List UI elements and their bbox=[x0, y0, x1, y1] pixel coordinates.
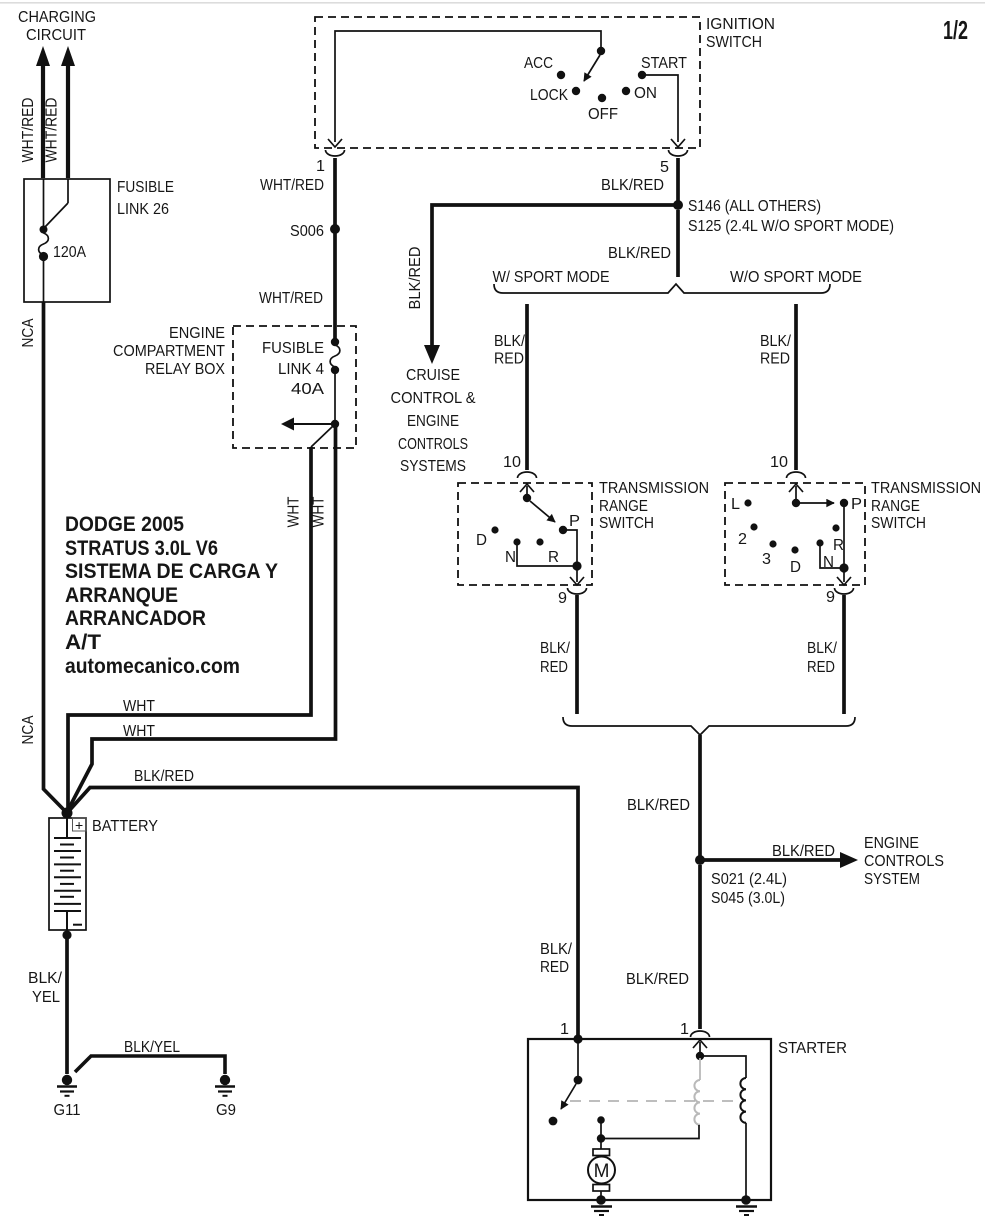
svg-text:CONTROLS: CONTROLS bbox=[864, 853, 944, 870]
pin 1 arrow (starter) bbox=[693, 1040, 707, 1048]
svg-text:DODGE 2005: DODGE 2005 bbox=[65, 513, 184, 536]
label ENGINE CONTROLS SYSTEM bbox=[864, 835, 944, 888]
wire WHT/RED to charging circuit (left arrow) bbox=[36, 46, 50, 178]
wire P to pin 9 (left TRS) bbox=[565, 530, 577, 564]
svg-text:BLK/RED: BLK/RED bbox=[627, 797, 690, 814]
wire BLK/RED to engine controls system bbox=[700, 858, 841, 862]
wire BLK/RED left branch bbox=[525, 304, 529, 470]
svg-text:ENGINE: ENGINE bbox=[407, 413, 459, 430]
contact ON bbox=[622, 87, 630, 95]
svg-text:1/2: 1/2 bbox=[943, 15, 968, 45]
svg-text:START: START bbox=[641, 55, 687, 72]
option brace W/ vs W/O sport mode bbox=[494, 284, 830, 293]
svg-text:SYSTEMS: SYSTEMS bbox=[400, 458, 466, 475]
splice S006 bbox=[330, 224, 340, 234]
ground G9 bbox=[215, 1075, 236, 1119]
ignition switch internal wiring pin5 side bbox=[645, 75, 678, 142]
svg-text:W/O SPORT MODE: W/O SPORT MODE bbox=[730, 269, 862, 286]
wire WHT/RED to charging circuit (right arrow) bbox=[61, 46, 75, 178]
solenoid pull-in winding (gray) bbox=[699, 1058, 701, 1080]
pin 1 arrow bbox=[328, 139, 342, 147]
starter box bbox=[528, 1039, 771, 1200]
svg-text:SISTEMA DE CARGA Y: SISTEMA DE CARGA Y bbox=[65, 560, 278, 583]
contact P (left TRS) bbox=[559, 526, 567, 534]
label TRANSMISSION RANGE SWITCH (right) bbox=[871, 480, 981, 532]
wire BLK/RED S146 down to option brace bbox=[676, 210, 680, 277]
contact 2 (right TRS) bbox=[750, 523, 757, 530]
wire BLK/RED right branch bbox=[794, 304, 798, 470]
wire P to pin 9 (right TRS) bbox=[843, 507, 845, 566]
svg-text:TRANSMISSION: TRANSMISSION bbox=[871, 480, 981, 497]
svg-text:CONTROL &: CONTROL & bbox=[391, 390, 476, 407]
svg-text:RED: RED bbox=[807, 659, 835, 676]
node CHARGING CIRCUIT label bbox=[18, 9, 96, 44]
svg-text:2: 2 bbox=[738, 531, 747, 548]
svg-text:LOCK: LOCK bbox=[530, 87, 569, 104]
fuse element FUSIBLE LINK 26 120A bbox=[39, 179, 68, 302]
svg-text:P: P bbox=[851, 496, 862, 513]
svg-text:LINK 26: LINK 26 bbox=[117, 201, 169, 218]
svg-text:BLK/: BLK/ bbox=[494, 333, 526, 350]
svg-text:RANGE: RANGE bbox=[599, 498, 648, 515]
node solenoid feed bbox=[696, 1052, 704, 1060]
junction pin 9 (right TRS) bbox=[839, 563, 848, 572]
svg-text:RED: RED bbox=[540, 659, 568, 676]
wire N to pin 9 (right TRS) bbox=[820, 546, 842, 568]
wire pull-in winding return bbox=[603, 1125, 699, 1139]
label IGNITION SWITCH bbox=[706, 16, 775, 51]
svg-text:9: 9 bbox=[558, 590, 567, 607]
pin 10 connector (left) bbox=[518, 472, 537, 478]
arrow to other circuits in relay box bbox=[290, 423, 331, 425]
svg-text:COMPARTMENT: COMPARTMENT bbox=[113, 343, 225, 360]
contact OFF bbox=[598, 94, 606, 102]
svg-text:S021 (2.4L): S021 (2.4L) bbox=[711, 871, 787, 888]
wire BLK/YEL battery to G11 bbox=[65, 937, 69, 1074]
ground (solenoid winding) bbox=[736, 1195, 757, 1215]
svg-text:R: R bbox=[833, 537, 844, 554]
svg-text:ENGINE: ENGINE bbox=[864, 835, 919, 852]
wire BLK/YEL to G9 bbox=[75, 1056, 225, 1074]
svg-text:S006: S006 bbox=[290, 223, 324, 240]
svg-text:BLK/YEL: BLK/YEL bbox=[124, 1039, 180, 1056]
switch wiper left TRS bbox=[523, 494, 531, 502]
svg-text:BLK/: BLK/ bbox=[540, 640, 571, 657]
svg-text:BLK/RED: BLK/RED bbox=[626, 971, 689, 988]
svg-text:G11: G11 bbox=[54, 1102, 81, 1119]
svg-text:BLK/: BLK/ bbox=[28, 970, 63, 987]
svg-text:R: R bbox=[548, 549, 559, 566]
wire hold-in winding to ground bbox=[745, 1123, 747, 1197]
ignition switch box bbox=[315, 17, 700, 148]
wire WHT branch diagonal bbox=[311, 426, 333, 447]
node starter battery terminal bbox=[573, 1034, 582, 1043]
svg-text:ENGINE: ENGINE bbox=[169, 325, 225, 342]
svg-text:P: P bbox=[569, 513, 580, 530]
wire WHT/RED pin1 to S006 bbox=[333, 158, 337, 225]
pin 1 connector bbox=[326, 150, 345, 156]
svg-text:WHT/RED: WHT/RED bbox=[44, 98, 61, 163]
contact P (right TRS) bbox=[840, 499, 848, 507]
wire BLK/RED pin5 to S146 bbox=[676, 158, 680, 202]
transmission range switch box (right) bbox=[725, 483, 865, 585]
pin 1 connector (starter) bbox=[691, 1031, 710, 1037]
motor M bbox=[600, 1142, 602, 1149]
svg-text:5: 5 bbox=[660, 159, 669, 176]
svg-text:FUSIBLE: FUSIBLE bbox=[262, 340, 324, 357]
svg-text:BLK/RED: BLK/RED bbox=[134, 768, 194, 785]
pin 9 connector (left) bbox=[568, 588, 587, 594]
wire WHT (left) relay box to battery bbox=[68, 447, 311, 810]
ground G11 bbox=[54, 1075, 81, 1119]
ignition switch internal wiring pin1 side bbox=[335, 31, 601, 142]
svg-text:RED: RED bbox=[760, 351, 790, 368]
contact L (right TRS) bbox=[744, 499, 751, 506]
svg-text:WHT/RED: WHT/RED bbox=[260, 177, 324, 194]
svg-text:40A: 40A bbox=[291, 381, 325, 398]
svg-text:CIRCUIT: CIRCUIT bbox=[26, 27, 86, 44]
contact R (right TRS) bbox=[832, 524, 839, 531]
contact N (left TRS) bbox=[513, 538, 520, 545]
svg-text:RELAY BOX: RELAY BOX bbox=[145, 361, 225, 378]
svg-text:BLK/: BLK/ bbox=[760, 333, 792, 350]
svg-text:WHT: WHT bbox=[123, 698, 155, 715]
wire WHT/RED S006 to fusible link 4 bbox=[333, 233, 337, 341]
node battery negative bbox=[62, 930, 71, 939]
svg-text:BLK/RED: BLK/RED bbox=[407, 247, 424, 310]
svg-text:9: 9 bbox=[826, 589, 835, 606]
wire NCA battery feed bbox=[44, 302, 67, 812]
svg-text:WHT: WHT bbox=[311, 497, 328, 528]
svg-text:ARRANCADOR: ARRANCADOR bbox=[65, 607, 206, 630]
pin 9 connector (right) bbox=[835, 588, 854, 594]
svg-text:D: D bbox=[790, 559, 801, 576]
svg-text:SWITCH: SWITCH bbox=[706, 34, 762, 51]
merge brace bbox=[563, 717, 855, 735]
wire to hold-in winding bbox=[700, 1056, 746, 1078]
svg-text:A/T: A/T bbox=[65, 631, 101, 654]
contact LOCK bbox=[572, 87, 580, 95]
fusible link 26 box bbox=[24, 179, 110, 302]
wire N to pin 9 (left TRS) bbox=[517, 545, 575, 566]
ignition switch wiper arm bbox=[597, 47, 605, 55]
svg-text:IGNITION: IGNITION bbox=[706, 16, 775, 33]
label BLK/RED (battery-starter wire) bbox=[540, 941, 573, 976]
switch wiper right TRS bbox=[792, 499, 800, 507]
label FUSIBLE LINK 4 40A bbox=[262, 340, 325, 398]
svg-text:NCA: NCA bbox=[20, 318, 37, 348]
starter solenoid switch bbox=[577, 1041, 579, 1077]
svg-text:WHT/RED: WHT/RED bbox=[20, 98, 37, 163]
svg-text:10: 10 bbox=[503, 454, 521, 471]
wire BLK/RED S021 to starter pin1 bbox=[698, 865, 702, 1029]
svg-text:STRATUS 3.0L V6: STRATUS 3.0L V6 bbox=[65, 537, 218, 560]
wire BLK/RED battery to starter bbox=[67, 788, 578, 1038]
pin 5 connector bbox=[669, 150, 688, 156]
wire BLK/RED right TRS pin9 down bbox=[842, 595, 846, 714]
svg-text:BLK/RED: BLK/RED bbox=[772, 843, 835, 860]
svg-text:D: D bbox=[476, 532, 487, 549]
ground (starter motor) bbox=[591, 1195, 612, 1215]
wire BLK/RED S146 to cruise control bbox=[432, 205, 676, 345]
svg-text:+: + bbox=[75, 817, 83, 833]
solenoid hold-in winding bbox=[740, 1078, 746, 1123]
battery bbox=[49, 818, 86, 930]
label FUSIBLE LINK 26 bbox=[117, 179, 174, 218]
svg-text:RED: RED bbox=[494, 351, 524, 368]
svg-text:WHT/RED: WHT/RED bbox=[259, 290, 323, 307]
engine compartment relay box bbox=[233, 326, 356, 448]
svg-text:3: 3 bbox=[762, 551, 771, 568]
svg-text:BLK/RED: BLK/RED bbox=[601, 177, 664, 194]
wire WHT (right) relay box to battery bbox=[67, 424, 336, 812]
splice S146 bbox=[673, 200, 683, 210]
svg-text:CRUISE: CRUISE bbox=[406, 367, 460, 384]
svg-text:WHT: WHT bbox=[286, 497, 303, 528]
svg-text:1: 1 bbox=[560, 1021, 569, 1038]
svg-text:LINK 4: LINK 4 bbox=[278, 361, 324, 378]
wire BLK/RED left TRS pin9 down bbox=[575, 595, 579, 714]
svg-text:NCA: NCA bbox=[20, 715, 37, 745]
svg-text:10: 10 bbox=[770, 454, 788, 471]
contact N (right TRS) bbox=[816, 539, 823, 546]
svg-text:CHARGING: CHARGING bbox=[18, 9, 96, 26]
transmission range switch box (left) bbox=[458, 483, 592, 585]
svg-text:TRANSMISSION: TRANSMISSION bbox=[599, 480, 709, 497]
svg-text:BLK/: BLK/ bbox=[807, 640, 838, 657]
contact 3 (right TRS) bbox=[769, 540, 776, 547]
svg-text:S125 (2.4L W/O SPORT MODE): S125 (2.4L W/O SPORT MODE) bbox=[688, 218, 894, 235]
svg-text:SWITCH: SWITCH bbox=[599, 515, 654, 532]
label CRUISE CONTROL & ENGINE CONTROLS SYSTEMS bbox=[391, 367, 476, 475]
mechanical link (dashed) bbox=[570, 1100, 740, 1102]
svg-text:RANGE: RANGE bbox=[871, 498, 920, 515]
svg-text:120A: 120A bbox=[53, 244, 87, 261]
contact D (left TRS) bbox=[491, 526, 498, 533]
svg-text:W/ SPORT MODE: W/ SPORT MODE bbox=[493, 269, 610, 286]
svg-text:N: N bbox=[505, 549, 516, 566]
node battery positive junction bbox=[62, 808, 73, 819]
svg-text:BLK/: BLK/ bbox=[540, 941, 573, 958]
svg-text:SWITCH: SWITCH bbox=[871, 515, 926, 532]
svg-text:ON: ON bbox=[634, 85, 657, 102]
splice S021/S045 bbox=[695, 855, 705, 865]
svg-text:YEL: YEL bbox=[32, 989, 60, 1006]
svg-text:M: M bbox=[594, 1161, 610, 1182]
svg-text:ARRANQUE: ARRANQUE bbox=[65, 584, 178, 607]
svg-text:WHT: WHT bbox=[123, 723, 155, 740]
svg-text:FUSIBLE: FUSIBLE bbox=[117, 179, 174, 196]
svg-text:S045 (3.0L): S045 (3.0L) bbox=[711, 890, 785, 907]
svg-text:RED: RED bbox=[540, 959, 569, 976]
fuse element FUSIBLE LINK 4 bbox=[331, 338, 339, 346]
contact START bbox=[638, 71, 646, 79]
pin 5 arrow bbox=[671, 139, 685, 147]
svg-text:1: 1 bbox=[316, 158, 325, 175]
junction pin 9 (left TRS) bbox=[572, 561, 581, 570]
svg-text:BLK/RED: BLK/RED bbox=[608, 245, 671, 262]
label ENGINE COMPARTMENT RELAY BOX bbox=[113, 325, 225, 378]
contact R (left TRS) bbox=[536, 538, 543, 545]
contact ACC bbox=[557, 71, 565, 79]
svg-text:CONTROLS: CONTROLS bbox=[398, 436, 468, 453]
wire BLK/RED merge to S021 bbox=[698, 735, 702, 857]
scan top border bbox=[0, 2, 985, 4]
svg-text:S146 (ALL OTHERS): S146 (ALL OTHERS) bbox=[688, 198, 821, 215]
svg-text:L: L bbox=[731, 496, 740, 513]
pin 10 arrow (right) bbox=[789, 484, 803, 492]
svg-text:SYSTEM: SYSTEM bbox=[864, 871, 920, 888]
svg-text:STARTER: STARTER bbox=[778, 1040, 847, 1057]
svg-text:OFF: OFF bbox=[588, 106, 618, 123]
contact D (right TRS) bbox=[791, 546, 798, 553]
pin 10 connector (right) bbox=[787, 472, 806, 478]
svg-text:ACC: ACC bbox=[524, 55, 553, 72]
pin 10 arrow (left) bbox=[520, 484, 534, 492]
svg-text:G9: G9 bbox=[216, 1102, 236, 1119]
starter motor contact bbox=[597, 1116, 605, 1124]
svg-text:automecanico.com: automecanico.com bbox=[65, 655, 240, 678]
svg-text:BATTERY: BATTERY bbox=[92, 818, 158, 835]
label TRANSMISSION RANGE SWITCH (left) bbox=[599, 480, 709, 532]
battery cells bbox=[54, 818, 82, 930]
svg-text:1: 1 bbox=[680, 1021, 689, 1038]
junction in relay box bbox=[331, 420, 339, 428]
